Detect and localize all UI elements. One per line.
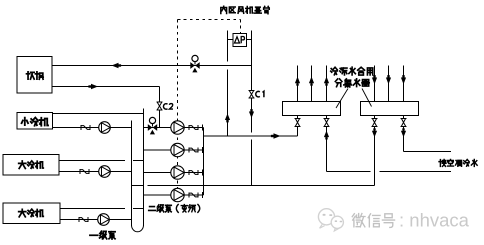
- svg-text:: nhvaca: : nhvaca: [399, 209, 470, 230]
